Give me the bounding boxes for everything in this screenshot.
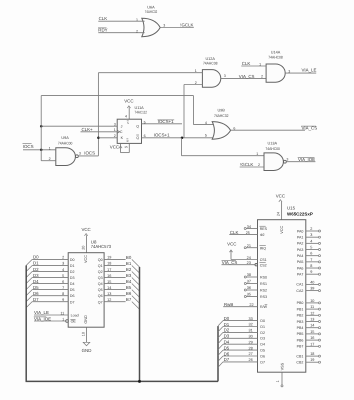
svg-text:25: 25 xyxy=(246,231,250,235)
bus entry B1 (right) xyxy=(132,265,140,273)
node B6 (U8 output) xyxy=(126,291,132,296)
node CLK+ xyxy=(82,127,94,132)
svg-text:B6: B6 xyxy=(126,291,132,296)
pin CB1 stub (U15 pin18, n.c.) xyxy=(306,352,321,357)
svg-text:17: 17 xyxy=(107,268,111,272)
svg-text:U9B: U9B xyxy=(218,109,226,113)
pin PA4 stub (U15 pin6, n.c.) xyxy=(306,252,321,257)
svg-text:D2: D2 xyxy=(260,331,265,335)
svg-text:U6A: U6A xyxy=(147,6,155,10)
wire U8 pin 18 output B1 xyxy=(104,262,126,266)
node B7 (U8 output) xyxy=(126,297,132,302)
svg-text:CA1: CA1 xyxy=(296,283,303,287)
svg-text:D6: D6 xyxy=(33,291,39,296)
or-gate U6A 74AHC32 xyxy=(136,6,165,37)
svg-text:3: 3 xyxy=(79,152,81,156)
svg-text:D1: D1 xyxy=(224,322,230,327)
svg-text:D3: D3 xyxy=(33,273,39,278)
wire D1 to U15 pin 32 xyxy=(223,326,258,328)
svg-text:U13A: U13A xyxy=(268,142,278,146)
node D4 (U15) xyxy=(224,340,253,345)
svg-text:3: 3 xyxy=(286,157,288,161)
wire J input from IOCS net xyxy=(41,125,117,127)
node VIA_CS (U15, active low) xyxy=(222,260,238,265)
svg-text:PA2: PA2 xyxy=(297,242,304,246)
wire CLK to U6A pin1 xyxy=(98,20,144,22)
wire U9A output xyxy=(78,155,98,157)
via U15 W65C22SxP xyxy=(258,206,313,373)
wire U12A pin2 / Qbar vertical xyxy=(182,85,185,156)
svg-text:D5: D5 xyxy=(70,288,75,292)
svg-text:20: 20 xyxy=(82,246,86,250)
svg-text:28: 28 xyxy=(249,346,253,350)
svg-text:74AHC00: 74AHC00 xyxy=(265,147,280,151)
svg-text:31: 31 xyxy=(249,329,253,333)
svg-text:12: 12 xyxy=(107,298,111,302)
svg-text:D3: D3 xyxy=(70,276,75,280)
wire U12A pin2 stub xyxy=(184,84,202,86)
svg-text:38: 38 xyxy=(247,273,251,277)
wire !GCLK to U13A pin2 xyxy=(240,166,264,168)
svg-text:16: 16 xyxy=(310,336,314,340)
svg-text:VIA_CS: VIA_CS xyxy=(302,126,318,131)
svg-text:14: 14 xyxy=(310,324,314,328)
wire U9A pin2 tie xyxy=(41,150,56,161)
svg-text:VIA_LE: VIA_LE xyxy=(302,68,317,73)
svg-text:29: 29 xyxy=(249,340,253,344)
bus VIA data vertical xyxy=(217,326,219,381)
pin PB6 stub (U15 pin16, n.c.) xyxy=(306,336,321,341)
node CLK (U14A) xyxy=(242,61,251,66)
wire U14A output xyxy=(285,72,316,74)
node IOCS (inverted) xyxy=(84,151,95,156)
bus entry D5 (left) xyxy=(26,290,32,296)
bus entry D4 (left) xyxy=(26,284,32,290)
bus entry B2 (right) xyxy=(132,271,140,279)
node D7 (U8 input) xyxy=(33,297,64,302)
wire RwB to U15 pin22 xyxy=(223,303,257,307)
svg-text:3: 3 xyxy=(310,233,312,237)
bus D[0..7] left vertical xyxy=(25,265,27,381)
svg-text:PA4: PA4 xyxy=(297,254,304,258)
svg-text:Q5: Q5 xyxy=(98,288,103,292)
node B0 (U8 output) xyxy=(126,255,132,260)
svg-text:VCC: VCC xyxy=(110,144,119,149)
wire RDY to U6A pin2 xyxy=(98,32,144,34)
bus entry B7 (right) xyxy=(132,302,140,310)
svg-text:11: 11 xyxy=(310,305,314,309)
svg-text:PA5: PA5 xyxy=(297,260,304,264)
svg-text:RS2: RS2 xyxy=(260,288,267,292)
svg-text:18: 18 xyxy=(107,262,111,266)
svg-text:Load: Load xyxy=(71,313,79,317)
svg-text:CLK+: CLK+ xyxy=(82,127,94,132)
svg-text:U11A: U11A xyxy=(135,106,145,110)
svg-text:PB5: PB5 xyxy=(297,332,304,336)
svg-text:VCC: VCC xyxy=(124,99,133,104)
svg-text:23: 23 xyxy=(247,261,251,265)
svg-text:CLK: CLK xyxy=(230,230,239,235)
svg-text:C: C xyxy=(120,130,123,134)
wire D3 to U15 pin 30 xyxy=(223,337,258,339)
wire D7 to U15 pin 26 xyxy=(223,361,258,363)
svg-text:PA1: PA1 xyxy=(297,235,304,239)
bus entry B3 (right) xyxy=(132,278,140,286)
svg-text:J: J xyxy=(121,124,123,128)
node RDY (active low) xyxy=(98,28,108,33)
svg-text:VCC: VCC xyxy=(81,227,90,232)
svg-text:8: 8 xyxy=(310,264,312,268)
pin RS0 stub (U15 pin38, n.c.) xyxy=(244,273,257,278)
wire Qbar output to U9B pin5 xyxy=(142,137,216,139)
node B2 (U8 output) xyxy=(126,267,132,272)
wire IOCS input to U9A pin1 xyxy=(23,149,56,151)
wire CLK to U14A pin1 xyxy=(241,65,266,67)
junction J tap xyxy=(40,125,43,128)
bus entry D3 (U15) xyxy=(218,338,223,343)
svg-text:D2: D2 xyxy=(70,270,75,274)
node B4 (U8 output) xyxy=(126,279,132,284)
bus U8 outputs vertical xyxy=(139,267,141,381)
svg-text:15: 15 xyxy=(124,145,128,149)
svg-text:PA7: PA7 xyxy=(297,272,304,276)
svg-text:15: 15 xyxy=(107,280,111,284)
and-gate U14A 74AHC08 xyxy=(259,50,290,82)
pin PA5 stub (U15 pin7, n.c.) xyxy=(306,258,321,263)
wire CLK+ to clock input xyxy=(81,131,118,133)
svg-text:D4: D4 xyxy=(224,340,230,345)
wire U6A output xyxy=(160,27,194,29)
junction bus xyxy=(138,380,141,383)
svg-text:39: 39 xyxy=(310,287,314,291)
svg-text:D3: D3 xyxy=(260,337,265,341)
pin RS2 stub (U15 pin36, n.c.) xyxy=(244,286,257,291)
pin IRQ stub (U15 pin21, n.c.) xyxy=(244,244,257,249)
svg-text:VCC: VCC xyxy=(227,241,236,246)
pin 20 label U8 xyxy=(82,246,86,250)
svg-text:Q2: Q2 xyxy=(98,270,103,274)
node D2 (U8 input) xyxy=(33,267,64,272)
wire D2 to U15 pin 31 xyxy=(223,331,258,333)
svg-text:D0: D0 xyxy=(260,319,265,323)
svg-text:D5: D5 xyxy=(33,285,39,290)
svg-text:D3: D3 xyxy=(224,334,230,339)
svg-text:3: 3 xyxy=(62,262,64,266)
bus entry D7 (left) xyxy=(26,302,32,308)
bus entry D6 (U15) xyxy=(218,356,223,361)
svg-text:5: 5 xyxy=(310,246,312,250)
svg-text:VCC: VCC xyxy=(276,193,285,198)
nand-gate U13A 74AHC00 xyxy=(256,142,288,171)
wire VIA_CS to CS2 pin23 xyxy=(222,261,258,266)
svg-text:RES: RES xyxy=(260,227,268,231)
svg-text:RS3: RS3 xyxy=(260,295,267,299)
svg-text:IOCS+1: IOCS+1 xyxy=(158,119,174,124)
svg-text:19: 19 xyxy=(310,358,314,362)
svg-text:PB1: PB1 xyxy=(297,307,304,311)
svg-text:12: 12 xyxy=(310,311,314,315)
svg-text:PB2: PB2 xyxy=(297,314,304,318)
svg-text:74AC112: 74AC112 xyxy=(135,110,148,114)
wire D7 to U8 pin 9 xyxy=(32,301,68,303)
pin CA2 stub (U15 pin39, n.c.) xyxy=(306,287,321,292)
pin PB3 stub (U15 pin13, n.c.) xyxy=(306,318,321,323)
wire D6 to U8 pin 8 xyxy=(32,295,68,297)
svg-text:Q: Q xyxy=(136,136,139,140)
svg-text:GND: GND xyxy=(82,348,92,353)
pin 24 label U15 xyxy=(276,212,280,216)
svg-text:IRQ: IRQ xyxy=(260,246,267,250)
svg-text:1: 1 xyxy=(256,152,258,156)
svg-text:74AHC08: 74AHC08 xyxy=(203,62,218,66)
bus entry D4 (U15) xyxy=(218,344,223,349)
svg-text:24: 24 xyxy=(276,212,280,216)
power VCC (U8 pin20) xyxy=(81,227,90,253)
wire D4 to U15 pin 29 xyxy=(223,343,258,345)
svg-text:7: 7 xyxy=(62,286,64,290)
svg-text:13: 13 xyxy=(310,318,314,322)
svg-text:74AHC32: 74AHC32 xyxy=(214,114,229,118)
node IOCS+1 (active low, Q) xyxy=(158,119,175,124)
svg-text:33: 33 xyxy=(249,317,253,321)
wire U12A output to U14A pin2 xyxy=(221,78,266,80)
svg-text:Q: Q xyxy=(136,125,139,129)
svg-text:11: 11 xyxy=(60,311,64,315)
svg-text:4: 4 xyxy=(310,239,312,243)
svg-text:18: 18 xyxy=(310,352,314,356)
svg-text:D7: D7 xyxy=(33,297,39,302)
pin PA0 stub (U15 pin2, n.c.) xyxy=(306,227,321,232)
wire vertical U9A out to U12A pin1 and FF K xyxy=(97,73,99,156)
svg-text:14: 14 xyxy=(107,286,111,290)
node D0 (U15) xyxy=(224,316,253,321)
svg-text:10: 10 xyxy=(82,332,86,336)
pin CB2 stub (U15 pin19, n.c.) xyxy=(306,358,321,363)
pin PB4 stub (U15 pin14, n.c.) xyxy=(306,324,321,329)
node B5 (U8 output) xyxy=(126,285,132,290)
wire to U13A pin1 xyxy=(182,155,265,157)
svg-text:D6: D6 xyxy=(260,354,265,358)
wire U13A output xyxy=(286,161,315,163)
svg-text:37: 37 xyxy=(247,280,251,284)
svg-text:R/W: R/W xyxy=(260,305,268,309)
svg-text:D7: D7 xyxy=(260,360,265,364)
svg-text:GND: GND xyxy=(84,315,88,324)
pin PB7 stub (U15 pin17, n.c.) xyxy=(306,342,321,347)
svg-text:PA0: PA0 xyxy=(297,229,304,233)
svg-text:13: 13 xyxy=(107,292,111,296)
svg-text:30: 30 xyxy=(249,335,253,339)
wire D0 to U8 pin 2 xyxy=(32,258,68,260)
svg-text:IOCS: IOCS xyxy=(84,151,95,156)
junction K wire xyxy=(97,137,100,140)
pin PA7 stub (U15 pin9, n.c.) xyxy=(306,270,321,275)
svg-text:PB0: PB0 xyxy=(297,301,304,305)
pin 10 label U8 xyxy=(82,332,86,336)
svg-text:PB6: PB6 xyxy=(297,338,304,342)
svg-text:RS1: RS1 xyxy=(260,282,267,286)
svg-text:3: 3 xyxy=(224,74,226,78)
pin RES stub (U15 pin34, n.c.) xyxy=(244,225,257,230)
wire D0 to U15 pin 33 xyxy=(223,320,258,322)
svg-text:RwB: RwB xyxy=(224,302,233,307)
wire CLK to U15 PHI2 pin25 xyxy=(229,231,257,235)
svg-text:9: 9 xyxy=(62,298,64,302)
svg-text:RS0: RS0 xyxy=(260,275,267,279)
svg-text:VIA_IOE: VIA_IOE xyxy=(298,157,315,162)
svg-text:D1: D1 xyxy=(260,325,265,329)
node D3 (U15) xyxy=(224,334,253,339)
svg-text:27: 27 xyxy=(249,352,253,356)
pin RS1 stub (U15 pin37, n.c.) xyxy=(244,280,257,285)
node RwB xyxy=(224,302,233,307)
svg-text:Q4: Q4 xyxy=(98,282,103,286)
wire D3 to U8 pin 5 xyxy=(32,277,68,279)
node VIA_CS (active low, right) xyxy=(301,126,317,131)
svg-text:B0: B0 xyxy=(126,255,132,260)
wire K input xyxy=(98,137,117,139)
svg-text:21: 21 xyxy=(247,244,251,248)
svg-text:B4: B4 xyxy=(126,279,132,284)
svg-text:17: 17 xyxy=(310,342,314,346)
node B1 (U8 output) xyxy=(126,261,132,266)
svg-text:D5: D5 xyxy=(260,349,265,353)
svg-text:U14A: U14A xyxy=(271,50,281,54)
svg-text:PA6: PA6 xyxy=(297,266,304,270)
svg-text:1: 1 xyxy=(62,317,64,321)
svg-text:VIA_LE: VIA_LE xyxy=(34,310,49,315)
svg-text:24: 24 xyxy=(247,256,251,260)
node D2 (U15) xyxy=(224,328,253,333)
node CLK xyxy=(99,16,108,21)
svg-text:4: 4 xyxy=(62,268,64,272)
svg-text:26: 26 xyxy=(249,358,253,362)
wire U12A pin1 from IOCS vertical xyxy=(98,72,202,74)
svg-text:5: 5 xyxy=(62,274,64,278)
wire IOCS drop to U9B pin4 xyxy=(194,96,216,125)
svg-text:7: 7 xyxy=(310,258,312,262)
pin PA2 stub (U15 pin4, n.c.) xyxy=(306,239,321,244)
svg-text:CS1: CS1 xyxy=(260,258,267,262)
svg-text:CA2: CA2 xyxy=(296,289,303,293)
bus entry D1 (U15) xyxy=(218,327,223,332)
svg-text:!GCLK: !GCLK xyxy=(180,22,193,27)
pin VSS stub (U15 pin1) xyxy=(276,372,283,387)
svg-text:S: S xyxy=(127,122,129,125)
pin PB5 stub (U15 pin15, n.c.) xyxy=(306,330,321,335)
svg-text:IOCS+1: IOCS+1 xyxy=(154,133,170,138)
bus entry D2 (left) xyxy=(26,271,32,277)
node B3 (U8 output) xyxy=(126,273,132,278)
node CLK (U15) xyxy=(230,230,239,235)
svg-text:36: 36 xyxy=(247,286,251,290)
svg-text:32: 32 xyxy=(249,323,253,327)
node VIA_LE xyxy=(302,68,317,73)
junction Qbar net xyxy=(181,137,184,140)
node IOCS+1 (Qbar) xyxy=(154,133,170,138)
wire U8 pin 17 output B2 xyxy=(104,268,126,272)
node D4 (U8 input) xyxy=(33,279,64,284)
svg-text:1: 1 xyxy=(276,380,280,382)
nand-gate U9A 74AHC00 xyxy=(49,136,81,165)
svg-text:2: 2 xyxy=(261,75,263,79)
node VIA_LE (U8) xyxy=(34,310,64,315)
latch U8 74AHC573 xyxy=(68,239,111,327)
bus entry D7 (U15) xyxy=(218,362,223,367)
wire VIA_IOE to U8 OE pin1 xyxy=(34,320,68,323)
jk-flipflop U11A 74AC112 xyxy=(114,106,147,143)
pin PA3 stub (U15 pin5, n.c.) xyxy=(306,246,321,251)
svg-text:U15: U15 xyxy=(287,206,296,211)
wire IOCS horizontal run xyxy=(41,95,193,97)
svg-text:!GCLK: !GCLK xyxy=(240,162,253,167)
svg-text:9: 9 xyxy=(310,270,312,274)
svg-text:IOCS: IOCS xyxy=(23,144,34,149)
svg-text:OE: OE xyxy=(71,320,77,324)
svg-text:CB2: CB2 xyxy=(296,361,303,365)
wire D5 to U8 pin 7 xyxy=(32,289,68,291)
svg-text:74AHC573: 74AHC573 xyxy=(91,244,112,249)
svg-text:74AHC08: 74AHC08 xyxy=(268,56,283,60)
svg-text:D4: D4 xyxy=(260,343,265,347)
wire U8 pin 19 output B0 xyxy=(104,256,126,260)
svg-text:D7: D7 xyxy=(70,300,75,304)
svg-text:D7: D7 xyxy=(224,357,230,362)
bus entry B0 (right) xyxy=(132,259,140,267)
svg-text:B1: B1 xyxy=(126,261,132,266)
bus entry D6 (left) xyxy=(26,296,32,302)
svg-text:D1: D1 xyxy=(70,264,75,268)
node VIA_CS (between U12A and U14A) xyxy=(239,74,255,79)
bus entry D3 (left) xyxy=(26,278,32,284)
node D5 (U8 input) xyxy=(33,285,64,290)
node D1 (U15) xyxy=(224,322,253,327)
node D0 (U8 input) xyxy=(33,255,64,260)
wire U8 pin 16 output B3 xyxy=(104,274,126,278)
svg-text:U9A: U9A xyxy=(61,136,69,140)
bus bottom horizontal xyxy=(26,380,219,382)
bus entry D1 (left) xyxy=(26,265,32,271)
svg-text:4: 4 xyxy=(205,121,207,125)
or-gate U9B 74AHC32 xyxy=(205,109,236,140)
svg-text:15: 15 xyxy=(310,330,314,334)
svg-text:PA3: PA3 xyxy=(297,248,304,252)
node !GCLK (U13A) xyxy=(240,162,253,167)
svg-text:Φ2: Φ2 xyxy=(260,233,265,237)
svg-text:D2: D2 xyxy=(224,328,230,333)
svg-text:CS2: CS2 xyxy=(260,263,267,267)
wire Q output stub xyxy=(142,123,183,125)
svg-text:22: 22 xyxy=(249,303,253,307)
bus entry B4 (right) xyxy=(132,284,140,292)
svg-text:U12A: U12A xyxy=(205,57,215,61)
svg-text:D1: D1 xyxy=(33,261,39,266)
svg-text:2: 2 xyxy=(62,256,64,260)
bus entry D0 (left) xyxy=(26,259,32,265)
svg-text:VIA_CS: VIA_CS xyxy=(239,74,255,79)
wire IOCS vertical (left) xyxy=(40,96,42,150)
svg-text:6: 6 xyxy=(310,252,312,256)
node !GCLK xyxy=(180,22,193,27)
bus entry D0 (U15) xyxy=(218,321,223,326)
node D5 (U15) xyxy=(224,345,253,350)
svg-text:VCC: VCC xyxy=(84,255,88,263)
power VCC (U11A preset) xyxy=(124,99,133,120)
svg-text:D4: D4 xyxy=(70,282,75,286)
wire D1 to U8 pin 3 xyxy=(32,264,68,266)
wire U9B output to right xyxy=(231,129,305,131)
svg-text:Q7: Q7 xyxy=(98,300,103,304)
